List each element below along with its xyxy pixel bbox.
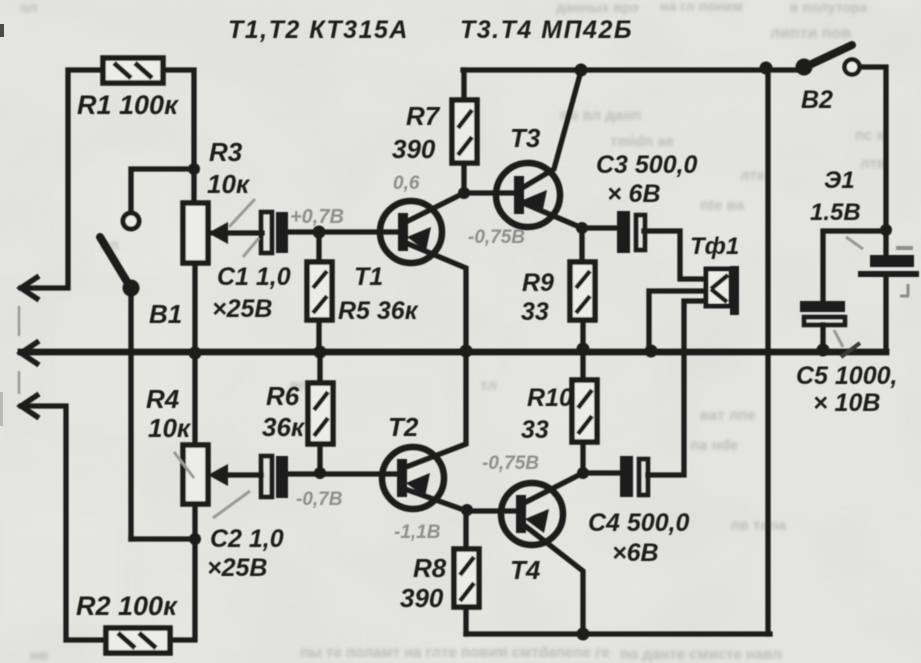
wire C5 bottom lead to bus: [820, 325, 825, 351]
wire B1 upper contact branch: [131, 169, 194, 212]
resistor R9: [570, 262, 595, 320]
svg-text:R6: R6: [266, 381, 300, 411]
wire R10 bottom to C4 node: [580, 442, 585, 473]
wire B2 circle to battery top: [859, 67, 886, 256]
wire R3 wiper to C1: [226, 230, 262, 235]
svg-text:36к: 36к: [262, 412, 306, 442]
capacitor C4: [620, 456, 648, 497]
svg-text:лтв: лтв: [860, 155, 886, 172]
svg-text:R2 100к: R2 100к: [76, 591, 178, 621]
wire T3 emitter to C3/R9 node: [523, 203, 618, 262]
phone Tf1: [706, 266, 739, 315]
wire R6 leads: [317, 353, 322, 473]
svg-text:+0,7В: +0,7В: [290, 206, 344, 228]
svg-text:пы те поламт на глте повиท: пы те поламт на глте повиท смтdanene ге: [300, 644, 610, 661]
svg-text:Т2: Т2: [388, 412, 419, 442]
svg-text:Т4: Т4: [510, 555, 541, 585]
svg-text:на гл поним: на гл поним: [660, 0, 743, 14]
wire R1 left lead to input arrow 1: [21, 70, 103, 288]
wire T2 emitter to T4 base node: [405, 489, 517, 511]
transistor T1: [380, 201, 442, 263]
wire C2 to T2 base: [287, 473, 397, 474]
svg-text:Тф1: Тф1: [690, 233, 739, 260]
svg-text:тmidn ae: тmidn ae: [610, 133, 674, 150]
svg-text:×25В: ×25В: [212, 295, 272, 323]
input arrow 1: [21, 276, 39, 300]
wire C4 left to T4 collector node: [583, 470, 621, 475]
capacitor C5: [800, 301, 845, 325]
wire C3 right then down to phone upper stub: [644, 231, 706, 279]
wire B1 lower lead down: [128, 296, 133, 539]
svg-text:1.5В: 1.5В: [810, 199, 861, 226]
wire R1 right lead down to R3: [163, 70, 194, 203]
svg-text:пte вa: пte вa: [700, 197, 745, 214]
capacitor C3: [617, 211, 645, 253]
svg-text:С4 500,0: С4 500,0: [588, 509, 690, 537]
transistor T4: [501, 483, 563, 545]
svg-text:лтe: лтe: [740, 167, 765, 184]
svg-text:С5 1000,: С5 1000,: [796, 362, 897, 390]
svg-text:ол: ол: [20, 0, 37, 15]
svg-text:в полутора: в полутора: [790, 0, 868, 15]
wire bottom rail: [466, 631, 770, 636]
svg-text:С3 500,0: С3 500,0: [596, 151, 698, 179]
wire top rail: [463, 67, 797, 72]
svg-text:пс в: пс в: [855, 127, 886, 144]
svg-text:R1 100к: R1 100к: [77, 90, 179, 120]
svg-text:-0,75В: -0,75В: [468, 227, 525, 248]
svg-text:33: 33: [521, 298, 549, 326]
junction node dots: [188, 62, 892, 641]
resistor R2: [106, 628, 170, 653]
svg-text:тл: тл: [480, 377, 497, 394]
capacitor C2: [261, 456, 288, 498]
input cable dashes: [18, 306, 21, 394]
svg-text:-0,7В: -0,7В: [296, 489, 343, 510]
switch B2: [796, 45, 860, 76]
svg-text:390: 390: [400, 583, 444, 613]
svg-text:Т1: Т1: [354, 263, 383, 291]
svg-text:× 6В: × 6В: [607, 180, 661, 208]
wire input arrow 3 to R2 left lead: [21, 406, 104, 640]
wire right-side vertical (top rail to bottom rail): [765, 70, 770, 634]
battery E1: [858, 248, 919, 296]
wire R5 leads: [316, 232, 321, 352]
svg-text:В1: В1: [149, 299, 182, 329]
svg-text:С1 1,0: С1 1,0: [217, 263, 291, 291]
resistor R6: [308, 383, 333, 444]
svg-text:10к: 10к: [148, 413, 192, 443]
wire T1 collector to R7/T3 node: [406, 70, 517, 222]
wire T4 collector: [524, 473, 583, 503]
wire R8 leads: [463, 511, 468, 634]
svg-text:R9: R9: [522, 269, 554, 297]
svg-text:В2: В2: [801, 86, 833, 114]
svg-text:данных вро: данных вро: [556, 0, 639, 15]
wire C5 branch from battery wire: [823, 231, 886, 301]
left margin tick: [0, 24, 4, 37]
svg-text:0,6: 0,6: [393, 173, 420, 194]
svg-text:R4: R4: [146, 384, 180, 414]
svg-text:нв: нв: [30, 647, 48, 663]
wire T4 emitter down to bottom rail: [524, 525, 583, 634]
wire C1 to T1 base: [287, 229, 400, 234]
wire phone middle stub down to bus: [649, 291, 706, 351]
wire phone lower stub down to C4: [648, 301, 706, 475]
svg-text:Э1: Э1: [824, 167, 855, 194]
svg-text:R5 36к: R5 36к: [338, 297, 419, 325]
resistor R5: [307, 262, 332, 320]
svg-text:Т1,Т2 КТ315А: Т1,Т2 КТ315А: [228, 16, 409, 44]
potentiometer R3: [183, 203, 226, 263]
svg-text:R3: R3: [209, 137, 243, 167]
input arrow 3: [21, 394, 39, 418]
svg-text:R7: R7: [406, 101, 441, 131]
wire T1 emitter down to bus and T2 collector: [406, 243, 466, 467]
resistor R1: [103, 58, 163, 83]
wire R4 bottom to B1/R2 junction: [131, 504, 195, 640]
svg-text:по данте смисте навл: по данте смисте навл: [620, 646, 782, 663]
wire middle bus: [21, 349, 886, 356]
svg-text:R10: R10: [527, 384, 573, 412]
transistor T3: [496, 163, 560, 227]
switch B1: [100, 213, 140, 297]
svg-text:× 10В: × 10В: [813, 389, 880, 417]
svg-text:390: 390: [392, 134, 436, 164]
svg-text:лв тena: лв тena: [730, 517, 787, 534]
wire R3 bottom to R4 top through bus: [192, 263, 197, 445]
svg-text:10к: 10к: [207, 169, 251, 199]
svg-text:-0,75В: -0,75В: [482, 453, 539, 474]
leader line C5 (dark): [841, 343, 860, 357]
svg-text:липти пов: липти пов: [770, 25, 851, 42]
wire R4 wiper to C2: [226, 472, 261, 477]
svg-text:R8: R8: [413, 553, 447, 583]
resistor R10: [572, 380, 597, 442]
transistor T2: [382, 447, 444, 509]
resistor R8: [454, 549, 479, 607]
svg-text:-1,1В: -1,1В: [394, 522, 441, 543]
leader lines (grey): [174, 199, 863, 518]
input arrow 2: [21, 341, 39, 365]
wire T3 collector to top rail: [522, 71, 581, 188]
wire battery bottom down to bus end: [883, 277, 888, 351]
svg-text:Т3.Т4 МП42Б: Т3.Т4 МП42Б: [460, 16, 633, 44]
wire R9 bottom to bus, R10 top: [580, 320, 585, 380]
svg-text:×25В: ×25В: [207, 554, 267, 582]
svg-text:па нde: па нde: [690, 437, 738, 454]
capacitor C1: [261, 212, 288, 253]
svg-text:33: 33: [521, 416, 549, 444]
potentiometer R4: [183, 445, 208, 504]
svg-text:Т3: Т3: [510, 123, 541, 153]
svg-text:×6В: ×6В: [612, 539, 659, 567]
resistor R7: [452, 100, 477, 163]
svg-text:С2 1,0: С2 1,0: [210, 525, 284, 553]
svg-text:ват лпе: ват лпе: [700, 407, 756, 424]
